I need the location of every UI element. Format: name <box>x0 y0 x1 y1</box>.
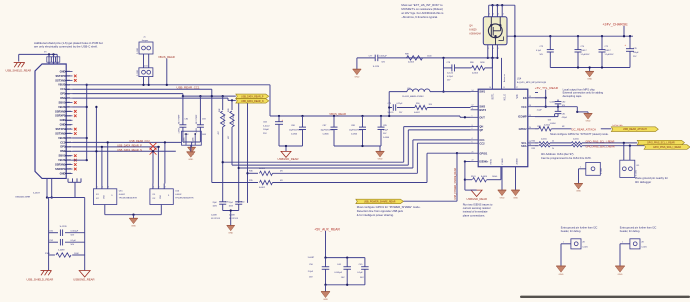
svg-text:Detection line from opposite U: Detection line from opposite USB jack <box>357 209 404 213</box>
svg-text:6-0629: 6-0629 <box>469 30 477 32</box>
svg-text:Must configure GPIO2 for "ATTA: Must configure GPIO2 for "ATTACH" (detec… <box>550 132 609 136</box>
svg-text:0.22µF: 0.22µF <box>447 76 454 78</box>
svg-text:VBUS: VBUS <box>58 105 65 109</box>
svg-text:SW1: SW1 <box>479 90 485 94</box>
svg-text:22: 22 <box>472 160 474 162</box>
svg-text:GND: GND <box>131 225 136 227</box>
svg-text:+24V_CHARGE: +24V_CHARGE <box>603 23 629 27</box>
svg-text:4-0602: 4-0602 <box>259 187 265 189</box>
svg-text:header, for debug.: header, for debug. <box>561 230 582 233</box>
svg-text:100V: 100V <box>229 205 234 207</box>
svg-text:GND: GND <box>188 159 193 161</box>
svg-text:A17: A17 <box>67 141 70 144</box>
svg-text:4: 4 <box>503 14 504 16</box>
svg-text:Place ground pin nearby for: Place ground pin nearby for <box>635 176 668 180</box>
svg-text:VBUS: VBUS <box>58 83 65 87</box>
svg-text:C40: C40 <box>241 201 244 203</box>
svg-text:A16: A16 <box>67 137 70 140</box>
svg-text:5-0806: 5-0806 <box>351 134 357 136</box>
svg-text:5-0617: 5-0617 <box>581 50 587 52</box>
svg-text:DP2: DP2 <box>60 145 66 149</box>
svg-text:1: 1 <box>563 242 564 244</box>
svg-text:15-0655_MA4X0.47UNLF: 15-0655_MA4X0.47UNLF <box>402 95 425 98</box>
svg-text:5-0L20: 5-0L20 <box>447 73 453 75</box>
svg-text:5: 5 <box>472 141 473 143</box>
svg-text:NO STUFF: NO STUFF <box>233 114 235 124</box>
svg-text:4-0000: 4-0000 <box>541 138 547 140</box>
svg-text:S-1381: S-1381 <box>193 137 195 143</box>
svg-text:13: 13 <box>529 96 531 98</box>
svg-text:NO STUFF: NO STUFF <box>229 218 239 220</box>
svg-text:4: 4 <box>493 14 494 16</box>
svg-text:A2: A2 <box>67 75 69 78</box>
svg-text:11: 11 <box>472 108 474 110</box>
svg-text:A18: A18 <box>67 145 70 148</box>
svg-text:17: 17 <box>516 87 518 89</box>
svg-text:16V: 16V <box>309 277 313 279</box>
svg-text:1-0094: 1-0094 <box>550 123 556 125</box>
svg-text:10R0: 10R0 <box>480 62 485 64</box>
svg-text:GND: GND <box>60 118 66 122</box>
svg-text:R90: R90 <box>416 103 419 105</box>
svg-text:A9: A9 <box>67 106 69 109</box>
svg-text:USBGND_REAR: USBGND_REAR <box>278 157 299 161</box>
svg-text:GSB443133HR: GSB443133HR <box>15 197 30 199</box>
svg-text:2k: 2k <box>552 140 554 142</box>
svg-text:5-0089: 5-0089 <box>58 250 65 252</box>
svg-text:NO STUFF: NO STUFF <box>211 218 221 220</box>
svg-text:~8mohms, 6.3mohms typical.: ~8mohms, 6.3mohms typical. <box>401 15 438 19</box>
svg-text:GND: GND <box>587 79 592 81</box>
svg-text:U14: U14 <box>517 78 522 80</box>
svg-text:1.5µF/50V: 1.5µF/50V <box>605 54 615 56</box>
svg-text:1.5µF/50V: 1.5µF/50V <box>581 54 591 56</box>
svg-text:DP1: DP1 <box>60 92 66 96</box>
svg-text:1: 1 <box>153 187 154 189</box>
svg-text:GPIO_PINS_SCL_I_REAR: GPIO_PINS_SCL_I_REAR <box>647 142 675 145</box>
svg-text:4-0602: 4-0602 <box>119 194 126 196</box>
svg-text:AGND: AGND <box>516 158 519 165</box>
svg-text:A12: A12 <box>67 119 70 122</box>
svg-text:5-0806: 5-0806 <box>383 137 389 139</box>
svg-text:25V: 25V <box>263 133 267 135</box>
svg-text:100µF: 100µF <box>633 52 639 54</box>
svg-text:3: 3 <box>165 187 166 189</box>
svg-text:GND: GND <box>60 123 66 127</box>
svg-text:Active-on: Active-on <box>503 74 506 82</box>
svg-text:GND: GND <box>60 69 66 73</box>
svg-text:5-0806: 5-0806 <box>323 134 329 136</box>
svg-text:100k0: 100k0 <box>492 176 497 178</box>
svg-text:2: 2 <box>102 187 103 189</box>
svg-text:VBUS_REAR: VBUS_REAR <box>329 112 346 116</box>
svg-text:USB_REAR_CC2: USB_REAR_CC2 <box>129 139 150 143</box>
svg-text:4-0602: 4-0602 <box>259 168 265 170</box>
svg-text:USB_DATA_REAR_N: USB_DATA_REAR_N <box>117 148 142 152</box>
svg-text:10µF/50V/X5R: 10µF/50V/X5R <box>349 130 362 132</box>
svg-text:GPIO_PINS_SDA_I_REAR: GPIO_PINS_SDA_I_REAR <box>586 146 615 149</box>
svg-text:BST2: BST2 <box>479 108 486 112</box>
svg-text:GPIO1: GPIO1 <box>479 151 487 155</box>
svg-text:1-0603: 1-0603 <box>178 128 180 134</box>
svg-text:R43: R43 <box>228 109 230 112</box>
svg-text:A23: A23 <box>67 168 70 171</box>
svg-text:1: 1 <box>97 187 98 189</box>
svg-text:15: 15 <box>503 87 505 89</box>
svg-text:GND: GND <box>228 232 233 234</box>
svg-text:0.1µF: 0.1µF <box>536 50 542 52</box>
svg-text:USB_REAR_CC1: USB_REAR_CC1 <box>177 85 200 89</box>
svg-text:16: 16 <box>489 87 491 89</box>
svg-text:3-1281: 3-1281 <box>601 168 603 174</box>
svg-text:0.1µF: 0.1µF <box>357 272 363 274</box>
svg-text:R33: R33 <box>532 148 535 150</box>
svg-text:1-0603: 1-0603 <box>196 128 198 134</box>
svg-text:4: 4 <box>489 14 490 16</box>
svg-text:0.1µF: 0.1µF <box>71 240 77 242</box>
svg-text:USB_POWER_SHARE_REAR: USB_POWER_SHARE_REAR <box>364 200 396 203</box>
svg-text:3: 3 <box>108 187 109 189</box>
svg-text:SDA: SDA <box>521 144 527 148</box>
svg-text:NO STUFF: NO STUFF <box>224 114 226 124</box>
svg-text:4-0000: 4-0000 <box>573 138 579 140</box>
svg-text:50V: 50V <box>71 234 75 236</box>
svg-text:14: 14 <box>472 90 474 92</box>
svg-text:ISEN-: ISEN- <box>491 159 493 165</box>
svg-text:A19: A19 <box>67 150 70 153</box>
svg-text:C80: C80 <box>562 101 566 103</box>
svg-text:2k: 2k <box>552 148 554 150</box>
svg-text:QP: QP <box>479 128 483 132</box>
svg-text:NO STUFF: NO STUFF <box>196 114 198 124</box>
svg-text:GND: GND <box>559 274 564 276</box>
svg-text:1: 1 <box>498 48 499 50</box>
svg-text:USB_DATA_REAR_P: USB_DATA_REAR_P <box>117 143 142 147</box>
svg-text:18: 18 <box>529 105 531 107</box>
svg-text:Can be programmed to be 0x61 t: Can be programmed to be 0x61 thru 0x7F. <box>541 156 592 160</box>
svg-text:4: 4 <box>472 138 473 140</box>
svg-text:S-1382: S-1382 <box>137 48 139 54</box>
svg-text:USB_DATA_REAR_P: USB_DATA_REAR_P <box>241 95 264 98</box>
svg-text:OUT: OUT <box>479 115 485 119</box>
svg-text:Must configure GPIO1 for "POWE: Must configure GPIO1 for "POWER_SHARE" m… <box>357 205 421 209</box>
svg-text:DN2: DN2 <box>60 149 66 153</box>
svg-text:0.22µF: 0.22µF <box>397 103 404 105</box>
svg-text:24: 24 <box>529 144 531 146</box>
svg-text:C79: C79 <box>388 103 391 105</box>
svg-text:3: 3 <box>472 125 473 127</box>
svg-text:50V: 50V <box>360 277 364 279</box>
svg-text:100K: 100K <box>74 253 79 255</box>
svg-text:decoupling caps.: decoupling caps. <box>563 94 583 98</box>
svg-text:SSRXP2: SSRXP2 <box>55 114 66 118</box>
svg-text:2.2µF: 2.2µF <box>537 109 543 111</box>
svg-text:R34: R34 <box>532 140 535 142</box>
svg-text:5-0L22: 5-0L22 <box>263 125 270 127</box>
svg-text:GND: GND <box>60 171 66 175</box>
svg-text:1R0: 1R0 <box>429 104 432 106</box>
svg-text:C78: C78 <box>447 62 451 64</box>
svg-text:GPIO_PINS_SDA_I_REAR: GPIO_PINS_SDA_I_REAR <box>653 146 681 149</box>
svg-text:50V: 50V <box>71 244 75 246</box>
svg-text:A21: A21 <box>67 159 70 162</box>
svg-text:header, for debug.: header, for debug. <box>620 230 641 233</box>
svg-text:SBU2: SBU2 <box>58 154 65 158</box>
svg-text:A8: A8 <box>67 101 69 104</box>
svg-text:ISEN6+: ISEN6+ <box>479 160 488 164</box>
svg-text:Jumper: Jumper <box>142 40 149 42</box>
svg-text:S-1126: S-1126 <box>373 66 380 68</box>
svg-text:DN1: DN1 <box>60 96 66 100</box>
svg-text:5-0088: 5-0088 <box>229 215 235 217</box>
svg-text:VBUS: VBUS <box>58 158 65 162</box>
svg-text:4-0602: 4-0602 <box>414 112 420 114</box>
svg-text:0.001µF: 0.001µF <box>71 231 79 233</box>
svg-text:CC2: CC2 <box>479 141 485 145</box>
svg-text:4: 4 <box>498 14 499 16</box>
svg-text:0.1µF: 0.1µF <box>383 130 389 132</box>
svg-text:5-0L20: 5-0L20 <box>388 112 394 114</box>
svg-text:S-1382: S-1382 <box>137 70 139 76</box>
svg-text:GPIO_PINS_SCL_I_REAR: GPIO_PINS_SCL_I_REAR <box>586 141 615 144</box>
svg-text:3-1281: 3-1281 <box>641 247 646 249</box>
svg-text:20: 20 <box>529 127 531 129</box>
svg-text:IO1: IO1 <box>96 194 99 196</box>
svg-text:USB_SHIELD_REAR: USB_SHIELD_REAR <box>27 277 54 281</box>
svg-text:100µF: 100µF <box>263 129 270 131</box>
svg-text:USB_POWER_SHARE_REAR: USB_POWER_SHARE_REAR <box>454 168 457 200</box>
svg-text:A5: A5 <box>67 88 69 91</box>
svg-text:+5V_TTL_REAR: +5V_TTL_REAR <box>535 86 559 90</box>
svg-text:S-1226: S-1226 <box>60 226 68 228</box>
svg-text:GND: GND <box>103 194 105 199</box>
svg-text:5-0617: 5-0617 <box>605 50 611 52</box>
svg-text:GND: GND <box>513 197 518 199</box>
svg-text:2x: 2x <box>144 36 146 38</box>
svg-text:current sensing resistor: current sensing resistor <box>463 206 491 210</box>
svg-text:A7: A7 <box>67 97 69 100</box>
svg-text:R101: R101 <box>471 176 476 178</box>
svg-text:4-0603: 4-0603 <box>408 62 414 64</box>
svg-text:SSRXN1: SSRXN1 <box>55 162 66 166</box>
svg-text:2: 2 <box>159 187 160 189</box>
svg-text:A20: A20 <box>67 154 70 157</box>
svg-text:SSRXN2: SSRXN2 <box>55 109 66 113</box>
svg-text:3-1282: 3-1282 <box>636 170 638 176</box>
svg-text:HS_G: HS_G <box>503 94 506 101</box>
svg-text:4R7: 4R7 <box>228 136 230 139</box>
svg-text:5-0087: 5-0087 <box>308 257 315 259</box>
svg-text:4-0000: 4-0000 <box>544 125 550 127</box>
svg-text:2: 2 <box>472 128 473 130</box>
svg-text:5-0088: 5-0088 <box>211 215 217 217</box>
svg-text:PGND: PGND <box>502 158 504 165</box>
svg-text:10µF/50V/X5R: 10µF/50V/X5R <box>289 130 302 132</box>
svg-text:instead of immediate: instead of immediate <box>463 210 488 214</box>
svg-text:AON6414A: AON6414A <box>469 32 481 35</box>
svg-text:SBU1: SBU1 <box>58 100 65 104</box>
svg-text:0.001µF: 0.001µF <box>334 272 342 274</box>
svg-text:GND: GND <box>618 274 623 276</box>
svg-text:CC2: CC2 <box>60 140 66 144</box>
svg-text:VBUS_REAR: VBUS_REAR <box>158 55 175 59</box>
svg-text:I2C_REAR_ATTACH: I2C_REAR_ATTACH <box>571 128 596 132</box>
svg-text:NO STUFF: NO STUFF <box>179 114 181 124</box>
svg-text:5-0087: 5-0087 <box>550 102 556 104</box>
svg-text:ICOMP: ICOMP <box>518 115 527 119</box>
svg-text:BST1: BST1 <box>491 93 494 100</box>
svg-text:4-0602: 4-0602 <box>175 194 182 196</box>
svg-text:USBGND_REAR: USBGND_REAR <box>73 277 94 281</box>
svg-text:SSTXP2: SSTXP2 <box>55 127 66 131</box>
svg-text:12: 12 <box>472 105 474 107</box>
svg-text:SSRXP1: SSRXP1 <box>55 167 66 171</box>
svg-text:plane connections.: plane connections. <box>463 213 486 217</box>
svg-text:USB_DATA_REAR_N: USB_DATA_REAR_N <box>241 100 264 103</box>
svg-text:B-0610: B-0610 <box>481 176 487 178</box>
svg-text:GND: GND <box>378 159 383 161</box>
svg-text:GND: GND <box>586 121 591 123</box>
svg-text:VBUS: VBUS <box>58 136 65 140</box>
svg-text:IO2: IO2 <box>96 198 99 200</box>
svg-text:Run two ISENS traces to: Run two ISENS traces to <box>463 202 493 206</box>
svg-text:SSTXP1: SSTXP1 <box>55 74 66 78</box>
svg-text:EN: EN <box>523 96 527 100</box>
svg-text:19: 19 <box>529 115 531 117</box>
svg-text:are only electrically connecte: are only electrically connected by the U… <box>34 45 98 49</box>
svg-text:TPD2EUSB30DRTR: TPD2EUSB30DRTR <box>119 197 138 199</box>
svg-text:GND: GND <box>160 194 162 199</box>
svg-text:1: 1 <box>488 48 489 50</box>
svg-text:A13: A13 <box>67 123 70 126</box>
svg-text:IO1: IO1 <box>152 194 155 196</box>
svg-text:R91: R91 <box>537 126 541 128</box>
svg-text:I2C debugger: I2C debugger <box>635 180 651 184</box>
svg-text:+5V_AUX_REAR: +5V_AUX_REAR <box>314 227 340 231</box>
svg-text:GND: GND <box>354 76 359 78</box>
svg-text:USBGND_REAR: USBGND_REAR <box>467 197 488 201</box>
svg-text:B-QU15_MPS_MPQ4242GQB: B-QU15_MPS_MPQ4242GQB <box>517 82 547 84</box>
svg-text:16V: 16V <box>341 277 345 279</box>
svg-text:A15: A15 <box>67 132 70 135</box>
svg-text:4-0603: 4-0603 <box>472 73 478 75</box>
svg-text:R86: R86 <box>470 62 474 64</box>
svg-text:A6: A6 <box>67 92 69 95</box>
svg-text:2.2µF: 2.2µF <box>308 271 314 273</box>
svg-text:1: 1 <box>493 48 494 50</box>
svg-text:S-1381: S-1381 <box>183 137 185 143</box>
svg-text:I2C Address: 0x61 (dec 97).: I2C Address: 0x61 (dec 97). <box>541 152 575 156</box>
svg-text:USB_REAR_ATTACH: USB_REAR_ATTACH <box>623 128 647 131</box>
svg-text:GND: GND <box>323 299 328 301</box>
svg-text:5-0637: 5-0637 <box>33 193 41 195</box>
svg-text:3-1281: 3-1281 <box>582 247 587 249</box>
svg-text:IO2: IO2 <box>152 198 155 200</box>
svg-text:10µF/50V/X5R: 10µF/50V/X5R <box>321 130 334 132</box>
svg-text:VIN: VIN <box>516 94 519 98</box>
svg-text:100V: 100V <box>213 205 218 207</box>
svg-text:& for intelligent power sharin: & for intelligent power sharing. <box>357 213 394 217</box>
svg-text:1: 1 <box>472 116 473 118</box>
svg-text:1: 1 <box>580 167 581 169</box>
svg-text:A11: A11 <box>67 114 70 117</box>
svg-text:R42: R42 <box>219 109 221 112</box>
svg-text:SSTXN2: SSTXN2 <box>55 131 66 135</box>
svg-text:5-0806: 5-0806 <box>291 134 297 136</box>
svg-text:CC1: CC1 <box>60 87 66 91</box>
svg-text:21: 21 <box>472 151 474 153</box>
svg-text:TPD2EUSB30DRTR: TPD2EUSB30DRTR <box>175 197 194 199</box>
svg-text:A10: A10 <box>67 110 70 113</box>
svg-text:A3: A3 <box>67 79 69 82</box>
svg-text:GPIO2: GPIO2 <box>519 127 527 131</box>
svg-text:GND: GND <box>500 197 505 199</box>
svg-text:A1: A1 <box>67 70 69 73</box>
svg-text:4R7: 4R7 <box>218 131 220 134</box>
svg-text:USB_SHIELD_REAR: USB_SHIELD_REAR <box>6 69 32 73</box>
svg-text:C81: C81 <box>562 113 566 115</box>
svg-text:1: 1 <box>622 242 623 244</box>
svg-text:VCC: VCC <box>521 105 527 109</box>
svg-text:SSTXN1: SSTXN1 <box>55 78 66 82</box>
svg-text:GND: GND <box>576 191 581 193</box>
svg-text:470pF: 470pF <box>562 117 568 119</box>
svg-text:0.001µF: 0.001µF <box>379 55 387 57</box>
svg-text:A22: A22 <box>67 163 70 166</box>
